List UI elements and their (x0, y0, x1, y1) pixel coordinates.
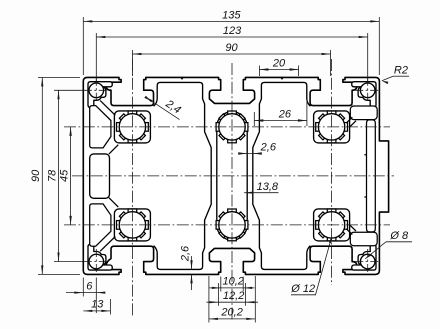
leader R2 corner radius (393, 75, 409, 77)
svg-text:2,6: 2,6 (179, 245, 191, 262)
centre channel cavity (13.8 wide stadium) (217, 112, 247, 240)
svg-text:26: 26 (278, 108, 292, 120)
svg-text:13: 13 (91, 299, 104, 311)
svg-text:45: 45 (58, 169, 70, 182)
top-left corner screw boss cavity (88, 82, 112, 108)
dimension 135 overall width (83, 20, 379, 22)
dimension 12,2 across nubs (207, 301, 259, 303)
left wall closed T-pocket (90, 154, 110, 198)
leader diameter 12 flower hole (291, 294, 316, 296)
top surface notch right of centre (281, 77, 283, 79)
inner chamber wall (right half: ceiling, centre-column east face, floor) (253, 82, 311, 269)
svg-text:123: 123 (223, 25, 242, 37)
dimension 2,6 bottom wall (191, 256, 193, 269)
dimension 13,8 channel width (244, 192, 278, 194)
top-right corner screw boss cavity (352, 82, 376, 108)
bottom-right cell boss and web (314, 209, 350, 241)
leader diameter 8 corner hole (386, 241, 412, 243)
svg-text:90: 90 (225, 42, 238, 54)
flower core hole bottom-centre (228, 209, 237, 216)
corner screw hole top-left (89, 83, 104, 98)
svg-text:Ø 8: Ø 8 (389, 230, 409, 242)
svg-text:12,2: 12,2 (223, 290, 244, 302)
flower core hole top-centre (228, 111, 237, 118)
flower core hole top-right cell (327, 111, 336, 118)
bottom-right cell pocket under corner boss and webs (347, 225, 378, 245)
dimension 13 (83, 310, 110, 312)
centre line horizontal middle (72, 175, 394, 177)
bottom-left cell boss and web (114, 209, 150, 241)
centre line vertical middle axis (231, 63, 233, 322)
top surface notch left of centre (181, 77, 183, 79)
dimension 2,6 wall thickness (241, 153, 261, 155)
crosshair top-right hole (355, 89, 380, 91)
aluminium profile outer contour with T-slot openings (83, 77, 388, 274)
dimension 90 overall height (41, 77, 43, 274)
bottom-left corner screw boss cavity (88, 244, 112, 270)
svg-text:R2: R2 (394, 64, 408, 76)
top-right cell pocket under corner boss and webs (347, 106, 378, 126)
svg-text:135: 135 (222, 9, 241, 21)
dimension 45 row centres (70, 127, 72, 225)
svg-text:10,2: 10,2 (222, 276, 243, 288)
svg-text:13,8: 13,8 (257, 181, 279, 193)
dimension 6 edge to hole (66, 292, 104, 294)
dimension 26 (254, 120, 307, 122)
svg-text:20,2: 20,2 (220, 307, 242, 319)
right wall recess channel behind pad (364, 120, 375, 232)
corner screw hole bottom-right (360, 254, 375, 269)
svg-text:2,6: 2,6 (260, 142, 277, 154)
dimension 10,2 slot opening (209, 287, 255, 289)
svg-text:6: 6 (86, 281, 93, 293)
top-left cell west chamber and webs (90, 101, 119, 155)
dimension 20,2 pocket width (209, 318, 255, 320)
corner screw hole bottom-left (89, 254, 104, 269)
centre line horizontal upper row (64, 126, 390, 128)
corner screw hole top-right (360, 83, 375, 98)
dimension 20 top pad (259, 69, 298, 71)
svg-text:90: 90 (30, 169, 42, 182)
svg-text:Ø 12: Ø 12 (290, 283, 315, 295)
top-left cell boss and web (114, 111, 150, 143)
bottom-left cell west chamber and webs (90, 198, 119, 252)
crosshair bottom-left hole (84, 261, 109, 263)
dimension 90 slot centres (132, 53, 330, 55)
svg-text:78: 78 (46, 169, 58, 182)
dimension 78 hole centres vertical (58, 90, 60, 261)
dimension 123 hole centres (96, 36, 367, 38)
inner chamber wall (left half: ceiling, centre-column west face, floor) (154, 82, 212, 269)
flower core hole top-left cell (128, 111, 137, 118)
svg-text:20: 20 (272, 58, 286, 70)
bottom-right corner screw boss cavity (352, 244, 376, 270)
crosshair top-left hole (84, 89, 109, 91)
flower core hole bottom-left cell (128, 209, 137, 216)
top-right cell boss and web (314, 111, 350, 143)
crosshair bottom-right hole (355, 261, 380, 263)
flower core hole bottom-right cell (327, 209, 336, 216)
centre line vertical left slot axis (131, 59, 133, 316)
centre line horizontal lower row (64, 224, 390, 226)
centre line vertical right slot axis (331, 59, 333, 285)
dimension 2,4 top wall (146, 97, 180, 119)
